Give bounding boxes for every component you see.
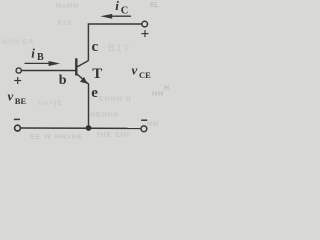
svg-text:C: C	[121, 5, 129, 16]
svg-text:HH: HH	[152, 91, 164, 98]
svg-text:B1T: B1T	[108, 43, 131, 53]
svg-text:fHE EHf: fHE EHf	[97, 132, 130, 139]
svg-text:v: v	[8, 89, 14, 104]
svg-text:B: B	[37, 52, 44, 63]
svg-text:i: i	[115, 0, 119, 13]
svg-text:CE: CE	[139, 70, 151, 80]
svg-text:EHHH H: EHHH H	[99, 96, 132, 103]
svg-text:e: e	[91, 85, 98, 101]
svg-text:xw>|E: xw>|E	[38, 100, 63, 107]
svg-text:H: H	[164, 85, 169, 92]
svg-text:i: i	[31, 46, 35, 61]
svg-text:T: T	[92, 66, 102, 82]
svg-text:HEHH#: HEHH#	[90, 112, 119, 119]
svg-text:HH: HH	[147, 121, 159, 128]
svg-text:c: c	[92, 39, 99, 55]
svg-text:b: b	[59, 73, 67, 88]
svg-text:EE W HHxHE: EE W HHxHE	[30, 134, 84, 140]
svg-text:BE: BE	[15, 96, 27, 106]
svg-text:EL: EL	[150, 2, 160, 9]
svg-text:Hff# EA: Hff# EA	[2, 39, 34, 46]
svg-text:v: v	[132, 63, 138, 78]
svg-text:X18: X18	[57, 20, 72, 27]
svg-text:HxHH: HxHH	[56, 3, 79, 10]
